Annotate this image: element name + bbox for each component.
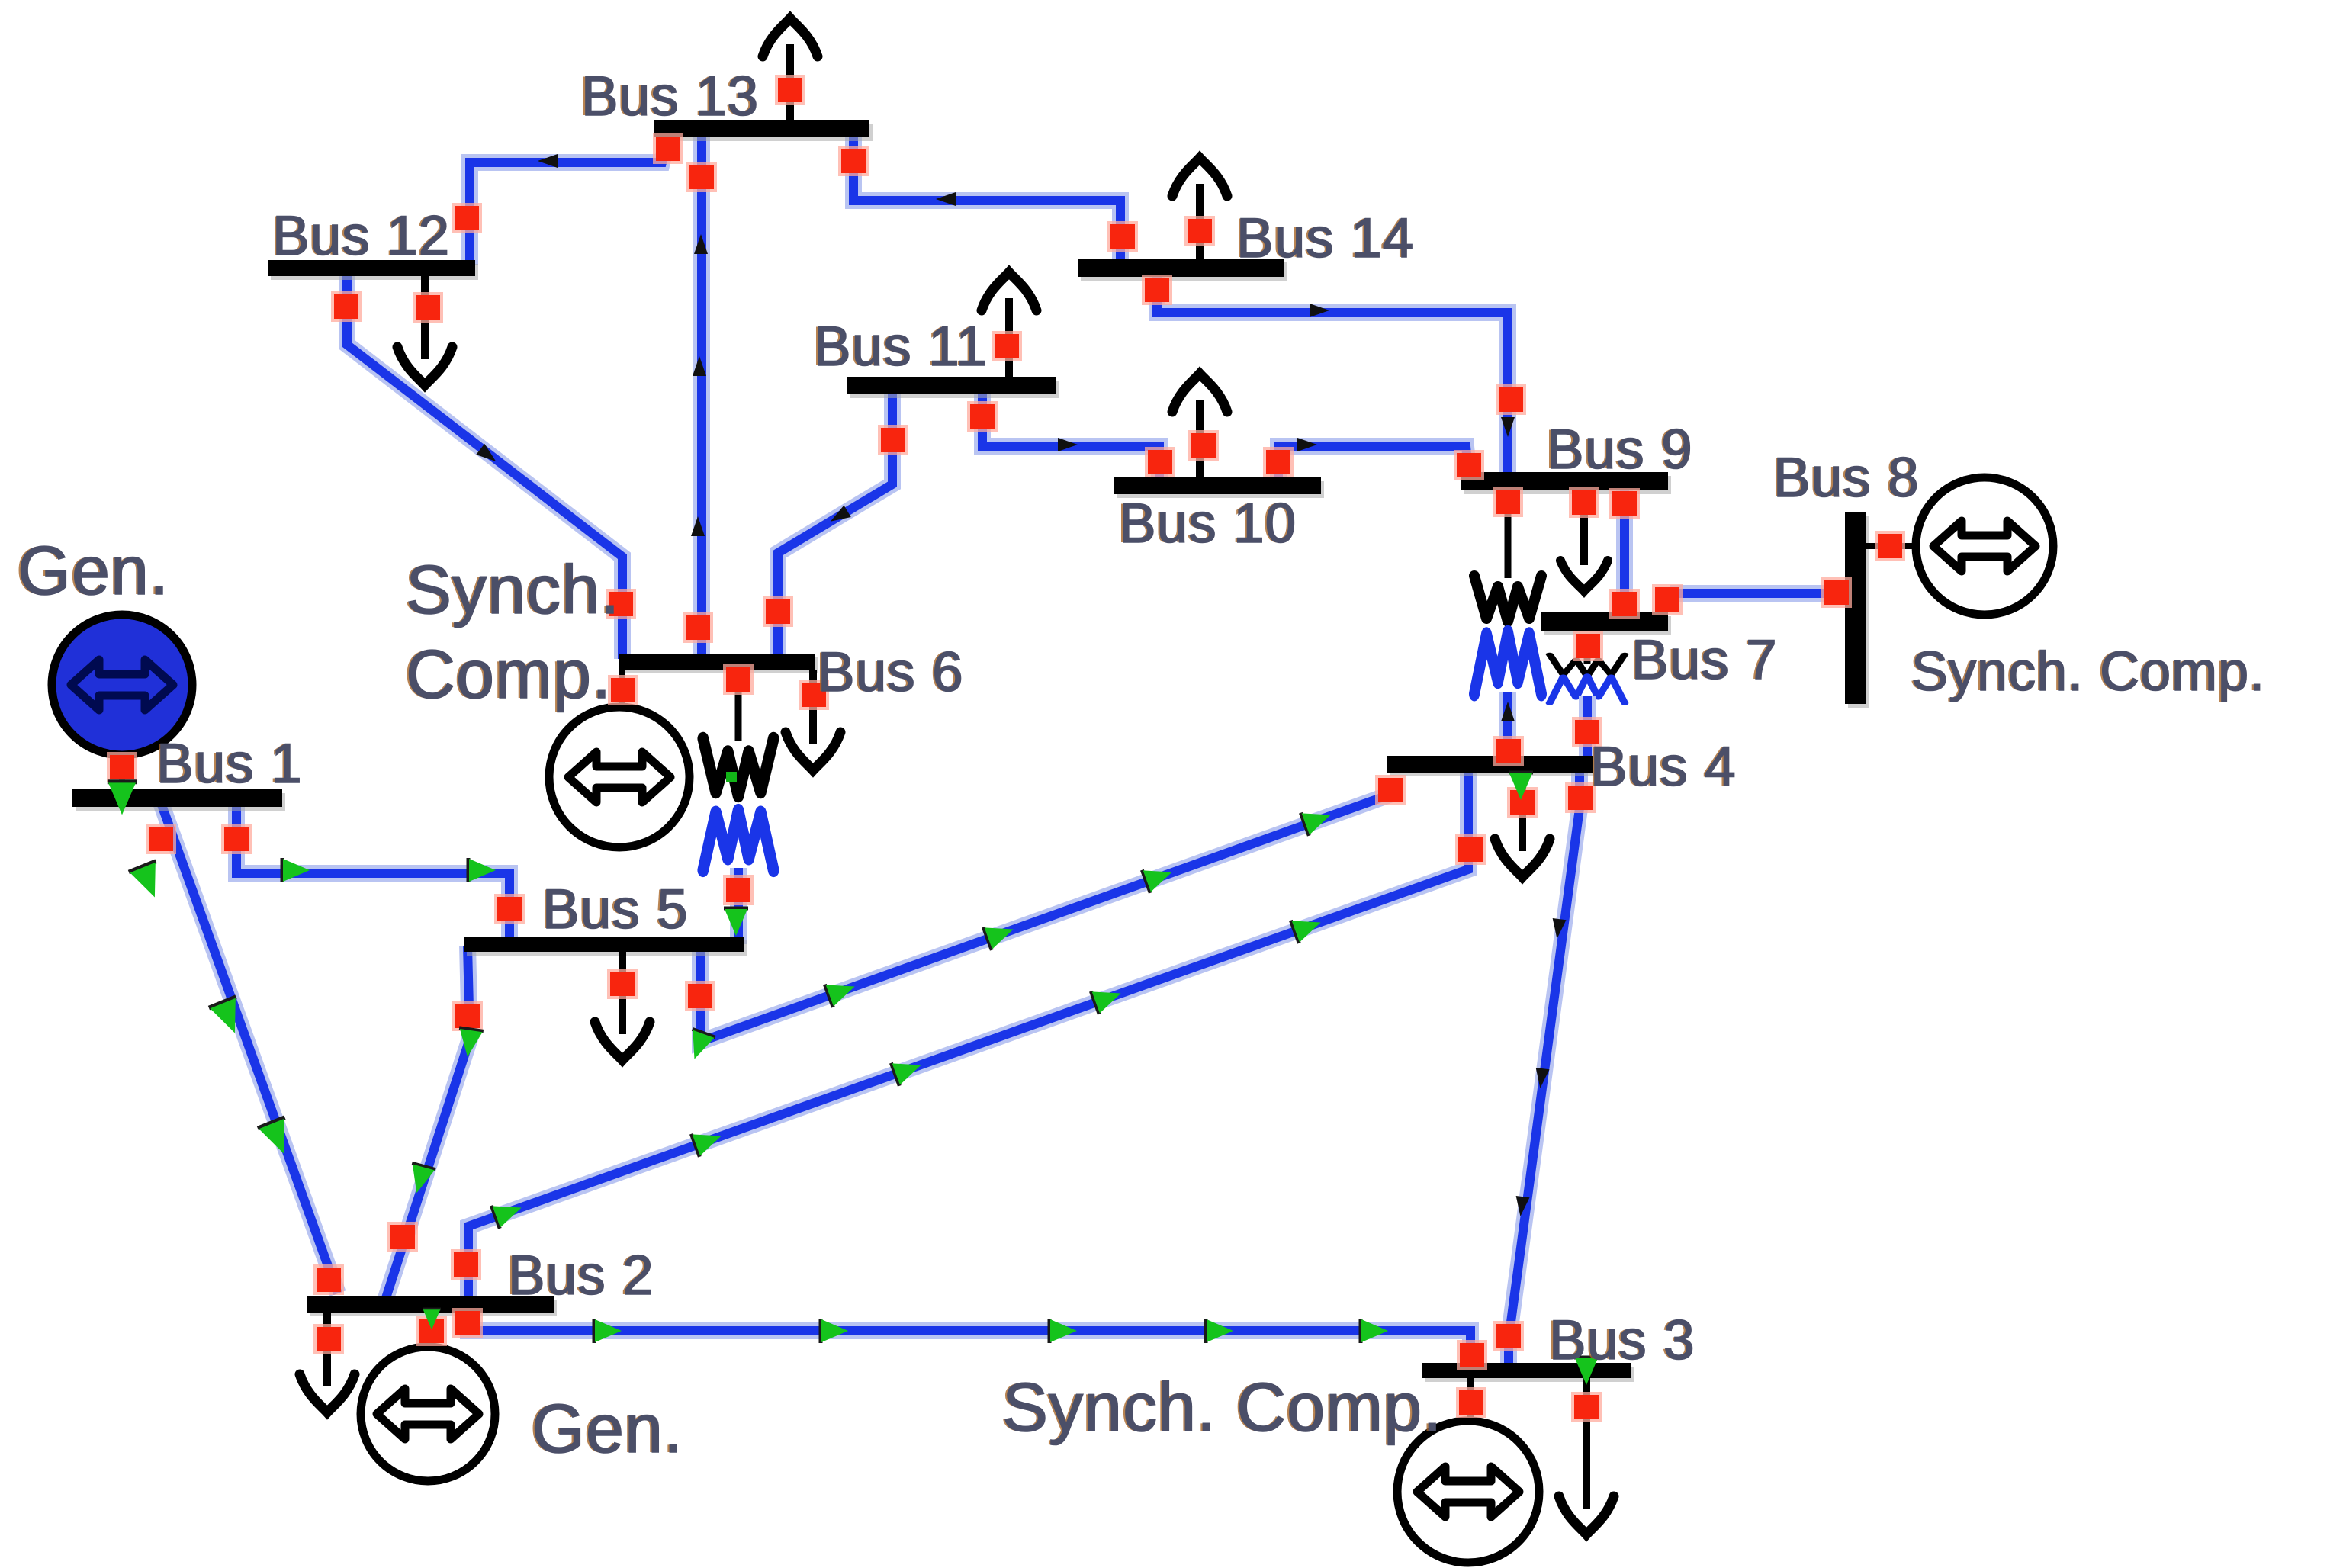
red square load terminal Bus 2: [313, 1324, 344, 1354]
black flow arrow line 10-9: [1297, 438, 1317, 451]
Bus 13 label: [579, 66, 759, 127]
transformer 6-5 green dot: [726, 772, 737, 782]
black flow arrow line 11-10: [1058, 438, 1078, 451]
svg-text:Bus 10: Bus 10: [1119, 493, 1297, 554]
red square load terminal Bus 6: [799, 680, 829, 710]
red square line 12-13 terminal at Bus 13: [653, 133, 683, 164]
svg-text:Synch. Comp.: Synch. Comp.: [1911, 641, 2265, 702]
green flow arrow line 5-2 b: [405, 1163, 435, 1196]
svg-text:Comp.: Comp.: [406, 637, 612, 713]
wire line 1-5: [236, 801, 509, 942]
svg-text:Bus 12: Bus 12: [272, 205, 450, 267]
green flow arrow transformer 6-5 at Bus 5: [724, 908, 748, 936]
red square line 1-5 terminal at Bus 1: [221, 824, 252, 854]
red square load terminal Bus 5: [607, 969, 638, 999]
green flow arrow line 1-5 a: [282, 858, 310, 882]
red square generator terminal Bus 2: [416, 1316, 447, 1346]
svg-text:Bus 14: Bus 14: [1236, 207, 1414, 269]
black flow arrow line 11-6: [827, 506, 851, 528]
black flow arrow transformer 9-4 stem: [1501, 702, 1515, 721]
Comp. label at Bus 6: [403, 637, 612, 713]
bus bar Bus 8: [1845, 512, 1869, 708]
load arrow Bus 4: [1495, 773, 1550, 877]
Synch. label at Bus 6: [403, 552, 620, 628]
synchronous compensator at Bus 6: [549, 707, 689, 847]
red square transformer 7-4 terminal at Bus 7: [1573, 631, 1603, 661]
black flow arrow line 13-6 c: [691, 516, 705, 536]
red square line 2-4 terminal at Bus 4: [1455, 834, 1486, 865]
red square line 12-6 terminal at Bus 12: [331, 291, 362, 322]
svg-text:Bus 13: Bus 13: [581, 66, 759, 127]
red square line 2-3 terminal at Bus 2: [452, 1308, 483, 1338]
svg-text:Bus 3: Bus 3: [1549, 1309, 1695, 1371]
wire line 2-4: [468, 767, 1468, 1301]
wire line 13-14: [853, 131, 1120, 264]
green flow arrow Bus 1 generator: [108, 782, 137, 815]
Bus 9 label: [1544, 419, 1693, 480]
red square line 9-7 terminal at Bus 9: [1609, 488, 1640, 519]
wire synch comp stem Bus 3: [1467, 1378, 1474, 1423]
bus bar Bus 6: [619, 654, 818, 673]
green flow arrow line 2-3 c: [1049, 1319, 1077, 1343]
Bus 7 label: [1629, 629, 1778, 691]
wire line 12-13: [470, 143, 667, 265]
green flow arrow line 1-5 b: [468, 858, 496, 882]
red square line 13-6 terminal at Bus 6: [683, 612, 713, 643]
load arrow Bus 11: [982, 272, 1037, 378]
Bus 2 label: [506, 1245, 654, 1306]
Synch. Comp. label at Bus 3: [1000, 1370, 1442, 1446]
Bus 12 label: [270, 205, 450, 267]
Gen. label at Bus 2: [529, 1391, 683, 1467]
red square line 4-3 terminal at Bus 3: [1493, 1321, 1524, 1351]
green flow arrow line 5-4 c: [1142, 860, 1176, 892]
green flow arrow line 5-4 corner: [683, 1029, 715, 1063]
wire line 7-8: [1670, 585, 1849, 602]
green flow arrow line 2-4 b: [691, 1124, 725, 1156]
Bus 10 label: [1117, 493, 1297, 554]
red square line 4-3 terminal at Bus 4: [1565, 782, 1596, 813]
Bus 14 label: [1234, 207, 1414, 269]
transformer 7-4 black winding: [1550, 654, 1625, 676]
Bus 5 label: [540, 879, 689, 940]
wire line 2-3: [468, 1307, 1470, 1368]
Bus 3 label: [1547, 1309, 1695, 1371]
wire line 4-3: [1509, 767, 1580, 1368]
wire transformer 9-4 secondary stem: [1499, 692, 1516, 760]
black flow arrow line 13-14: [936, 192, 956, 206]
wire line 9-7: [1616, 485, 1633, 618]
wire generator stem Bus 2: [429, 1313, 435, 1350]
Bus 6 label: [815, 641, 964, 703]
red square line 1-5 terminal at Bus 5: [494, 894, 525, 924]
svg-text:Gen.: Gen.: [18, 533, 169, 609]
svg-text:Bus 1: Bus 1: [156, 733, 303, 795]
green flow arrow line 1-2 c: [258, 1117, 297, 1158]
wire transformer 7-4 secondary stem: [1579, 696, 1596, 760]
transformer 9-4 blue winding: [1474, 632, 1541, 694]
Gen. label at Bus 1: [15, 533, 169, 609]
svg-text:Bus 9: Bus 9: [1547, 419, 1693, 480]
red square load terminal Bus 13: [775, 75, 805, 105]
red square line 1-2 terminal at Bus 1: [146, 824, 176, 854]
red square generator terminal Bus 1: [107, 752, 137, 782]
red square load terminal Bus 4: [1507, 787, 1538, 818]
svg-text:Bus 6: Bus 6: [818, 641, 964, 703]
load arrow Bus 13: [763, 18, 818, 122]
black flow arrow line 13-6 b: [693, 356, 706, 376]
red square transformer 9-4 terminal at Bus 4: [1493, 736, 1524, 766]
red square line 11-6 terminal at Bus 6: [763, 596, 793, 627]
svg-text:Bus 2: Bus 2: [508, 1245, 654, 1306]
load arrow Bus 2: [300, 1313, 355, 1412]
red square line 7-8 terminal at Bus 7: [1652, 584, 1683, 615]
red square line 2-4 terminal at Bus 2: [451, 1249, 481, 1280]
svg-text:Synch.: Synch.: [406, 552, 620, 628]
black flow arrow line 4-3 a: [1550, 918, 1566, 940]
red square line 5-2 terminal at Bus 5: [452, 1001, 483, 1031]
red square load terminal Bus 9: [1569, 487, 1599, 518]
red square transformer 6-5 terminal at Bus 5: [723, 875, 754, 905]
green flow arrow line 2-4 a: [491, 1196, 525, 1228]
red square load terminal Bus 10: [1188, 430, 1219, 461]
red square line 11-10 terminal at Bus 10: [1145, 447, 1175, 477]
black flow arrow line 12-13: [538, 154, 558, 168]
transformer 9-4 black winding: [1474, 576, 1541, 622]
green flow arrow line 5-4 a: [824, 975, 859, 1007]
red square line 1-2 terminal at Bus 2: [313, 1264, 344, 1295]
Bus 4 label: [1588, 736, 1737, 798]
green flow arrow Bus 2 generator: [423, 1309, 441, 1330]
wire line 9-14: [1157, 272, 1508, 477]
Bus 1 label: [154, 733, 303, 795]
red square synch comp terminal Bus 3: [1456, 1387, 1486, 1418]
wire line 11-10: [982, 389, 1159, 483]
svg-text:Bus 4: Bus 4: [1590, 736, 1737, 798]
red square load terminal Bus 14: [1184, 216, 1215, 246]
wire line 12-6: [347, 271, 622, 659]
bus bar Bus 1: [72, 789, 285, 811]
red square line 9-7 terminal at Bus 7: [1609, 589, 1640, 619]
bus bar Bus 5: [464, 937, 747, 956]
red square transformer 6-5 terminal at Bus 6: [723, 664, 754, 695]
red square line 5-4 terminal at Bus 4: [1375, 775, 1406, 805]
wire line 5-4: [700, 795, 1390, 1042]
Synch. Comp. label at Bus 8: [1909, 641, 2265, 702]
green flow arrow line 2-3 a: [594, 1319, 622, 1343]
synchronous compensator at Bus 3: [1397, 1421, 1539, 1563]
load arrow Bus 6: [786, 670, 840, 770]
green flow arrow Bus 4 load: [1509, 773, 1533, 800]
green flow arrow Bus 3 load: [1574, 1358, 1599, 1385]
green flow arrow line 2-3 e: [1361, 1319, 1388, 1343]
red square line 5-2 terminal at Bus 2: [387, 1222, 418, 1252]
load arrow Bus 9: [1560, 490, 1608, 591]
svg-text:Bus 8: Bus 8: [1773, 447, 1920, 509]
Bus 11 label: [812, 316, 988, 378]
black flow arrow line 9-14 a: [1310, 304, 1329, 317]
bus bar Bus 3: [1422, 1363, 1634, 1382]
transformer 6-5 black winding: [703, 739, 773, 796]
red square line 2-3 terminal at Bus 3: [1457, 1340, 1487, 1370]
transformer 7-4 blue winding: [1550, 676, 1625, 703]
red square line 12-6 terminal at Bus 6: [606, 589, 636, 619]
wire transformer 7-4 primary stem: [1584, 641, 1591, 664]
load arrow Bus 3: [1559, 1378, 1614, 1534]
bus bar Bus 9: [1461, 472, 1671, 494]
wire line 13-6: [693, 131, 710, 659]
red square line 11-10 terminal at Bus 11: [967, 401, 998, 432]
green flow arrow line 2-4 c: [891, 1053, 925, 1085]
bus bar Bus 4: [1387, 756, 1596, 776]
red square load terminal Bus 3: [1571, 1392, 1602, 1422]
red square line 7-8 terminal at Bus 8: [1821, 577, 1852, 608]
red square synch comp terminal Bus 8: [1875, 531, 1905, 561]
red square transformer 7-4 terminal at Bus 4: [1572, 717, 1602, 747]
svg-text:Bus 7: Bus 7: [1631, 629, 1778, 691]
red square line 10-9 terminal at Bus 10: [1263, 447, 1294, 477]
green flow arrow line 5-4 d: [1300, 803, 1335, 835]
wire line 10-9: [1278, 446, 1469, 483]
bus bar Bus 13: [654, 120, 873, 141]
svg-text:Gen.: Gen.: [532, 1391, 683, 1467]
bus bar Bus 11: [847, 377, 1059, 398]
load arrow Bus 14: [1172, 158, 1227, 260]
load arrow Bus 12: [397, 276, 452, 385]
Bus 8 label: [1771, 447, 1920, 509]
bus bar Bus 10: [1114, 477, 1324, 498]
red square line 10-9 terminal at Bus 9: [1454, 450, 1484, 480]
black flow arrow line 4-3 c: [1513, 1196, 1529, 1217]
wire synch comp stem Bus 8: [1866, 543, 1917, 549]
red square load terminal Bus 12: [413, 292, 443, 323]
black flow arrow line 13-6 a: [694, 234, 708, 254]
red square line 5-4 terminal at Bus 5: [685, 981, 715, 1011]
wire synch comp stem Bus 6: [619, 670, 625, 709]
black flow arrow line 4-3 b: [1533, 1068, 1549, 1089]
wire transformer 6-5 primary stem: [735, 665, 742, 741]
svg-text:Bus 11: Bus 11: [814, 316, 988, 378]
green flow arrow line 2-4 d: [1091, 982, 1125, 1014]
load arrow Bus 5: [595, 952, 650, 1060]
red square line 11-6 terminal at Bus 11: [878, 425, 908, 455]
bus bar Bus 2: [307, 1296, 557, 1316]
wire line 5-2: [385, 946, 470, 1300]
green flow arrow line 1-2 a: [129, 861, 169, 902]
green flow arrow line 2-3 b: [821, 1319, 848, 1343]
generator G1 at Bus 1 (blue): [52, 615, 192, 755]
load arrow Bus 10: [1172, 374, 1227, 479]
generator G2 at Bus 2: [361, 1347, 495, 1481]
black flow arrow line 12-6: [476, 444, 500, 467]
green flow arrow line 1-2 b: [209, 997, 249, 1038]
wire line 11-6: [778, 389, 892, 659]
red square line 13-14 terminal at Bus 13: [838, 146, 869, 176]
red square load terminal Bus 11: [992, 331, 1022, 361]
synchronous compensator at Bus 8: [1916, 477, 2053, 615]
red square line 12-13 terminal at Bus 12: [452, 203, 482, 233]
bus bar Bus 12: [268, 260, 478, 280]
green flow arrow line 5-4 b: [983, 917, 1017, 949]
transformer 6-5 blue winding: [703, 811, 773, 870]
red square line 9-14 terminal at Bus 9: [1496, 384, 1526, 415]
red square line 13-14 terminal at Bus 14: [1107, 221, 1138, 252]
red square line 13-6 terminal at Bus 13: [686, 162, 717, 192]
red square transformer 9-4 terminal at Bus 9: [1493, 487, 1523, 517]
wire generator stem Bus 1: [119, 751, 125, 789]
wire transformer 6-5 secondary stem: [730, 868, 747, 944]
red square line 9-14 terminal at Bus 14: [1142, 275, 1172, 305]
green flow arrow line 5-2 a: [455, 1028, 484, 1059]
red square synch comp terminal Bus 6: [608, 675, 638, 705]
wire transformer 9-4 primary stem: [1505, 488, 1512, 578]
green flow arrow line 2-3 d: [1206, 1319, 1233, 1343]
black flow arrow line 9-14 b: [1501, 417, 1515, 437]
bus bar Bus 14: [1078, 259, 1287, 281]
wire line 1-2: [160, 801, 338, 1293]
bus bar Bus 7: [1541, 612, 1671, 635]
svg-text:Synch. Comp.: Synch. Comp.: [1002, 1370, 1442, 1446]
svg-text:Bus 5: Bus 5: [542, 879, 689, 940]
green flow arrow line 2-4 e: [1290, 911, 1325, 943]
